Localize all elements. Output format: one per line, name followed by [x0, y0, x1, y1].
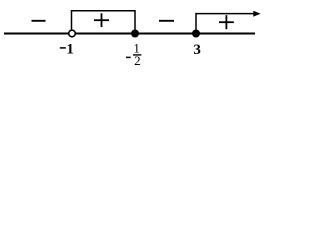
svg-text:2: 2 [134, 53, 141, 68]
svg-text:3: 3 [193, 42, 201, 58]
svg-text:1: 1 [66, 42, 74, 58]
